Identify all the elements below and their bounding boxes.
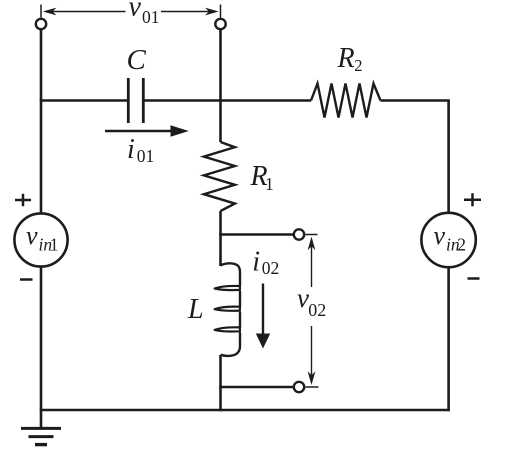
- v01 dimension ticks: [41, 5, 221, 18]
- svg-text:02: 02: [262, 258, 280, 278]
- node terminal v01 right: [215, 19, 225, 29]
- polarity plus Vin1: [15, 194, 31, 206]
- voltage source Vin2 circle: [421, 213, 475, 267]
- wire bottom horizontal: [40, 409, 450, 412]
- svg-text:01: 01: [142, 7, 160, 27]
- svg-text:01: 01: [137, 146, 155, 166]
- svg-text:v: v: [434, 221, 446, 250]
- wire top horizontal middle (capacitor to R2): [143, 99, 311, 102]
- node terminal v02 top: [294, 229, 304, 239]
- svg-text:02: 02: [308, 300, 326, 320]
- v02 dimension upper arrow: [308, 237, 316, 287]
- polarity minus Vin2: [468, 277, 480, 280]
- svg-text:2: 2: [457, 235, 466, 255]
- node terminal v02 bottom: [294, 382, 304, 392]
- current arrow i02: [256, 284, 270, 349]
- v01 dimension right arrow: [161, 8, 219, 16]
- inductor L coil bottom hook: [221, 346, 241, 356]
- svg-text:v: v: [26, 221, 38, 250]
- polarity plus Vin2: [464, 193, 481, 206]
- svg-text:R: R: [337, 43, 355, 74]
- voltage source Vin1 circle: [14, 213, 67, 266]
- wire right rail lower (Vin2 to bottom wire): [447, 268, 450, 412]
- v02 dimension ticks: [306, 235, 319, 388]
- svg-text:L: L: [187, 294, 204, 325]
- svg-text:1: 1: [50, 235, 59, 255]
- wire middle rail bottom (inductor to bottom wire): [219, 355, 222, 411]
- wire middle rail top (terminal through junction to R1): [219, 30, 222, 143]
- svg-text:v: v: [297, 283, 309, 313]
- svg-text:v: v: [129, 0, 142, 22]
- current arrow i01: [105, 125, 189, 136]
- inductor L coil petals: [215, 286, 240, 332]
- v02 dimension lower arrow: [308, 326, 316, 385]
- wire left rail lower (Vin1 to bottom wire): [40, 268, 43, 429]
- resistor R2 zigzag: [311, 84, 381, 118]
- v01 dimension left arrow: [43, 8, 126, 16]
- svg-text:1: 1: [265, 174, 274, 194]
- svg-text:i: i: [252, 247, 260, 278]
- resistor R1 zigzag: [204, 142, 235, 211]
- wire top horizontal left (rail to capacitor): [40, 99, 128, 102]
- polarity minus Vin1: [20, 278, 33, 281]
- capacitor C plates: [128, 78, 143, 123]
- svg-text:i: i: [127, 134, 135, 165]
- svg-text:2: 2: [354, 56, 362, 75]
- inductor L coil top hook: [221, 263, 241, 286]
- wire top horizontal right (R2 to right corner): [381, 101, 449, 213]
- wire stub to v02 bottom terminal: [219, 386, 293, 389]
- wire left rail upper (terminal to Vin1): [40, 30, 43, 213]
- wire middle rail (R1 to inductor): [219, 211, 222, 266]
- ground symbol: [21, 428, 61, 444]
- wire stub to v02 top terminal: [219, 233, 293, 236]
- inductor L coil right rail segments: [239, 291, 241, 346]
- node terminal v01 left: [36, 19, 46, 29]
- svg-text:C: C: [127, 44, 147, 76]
